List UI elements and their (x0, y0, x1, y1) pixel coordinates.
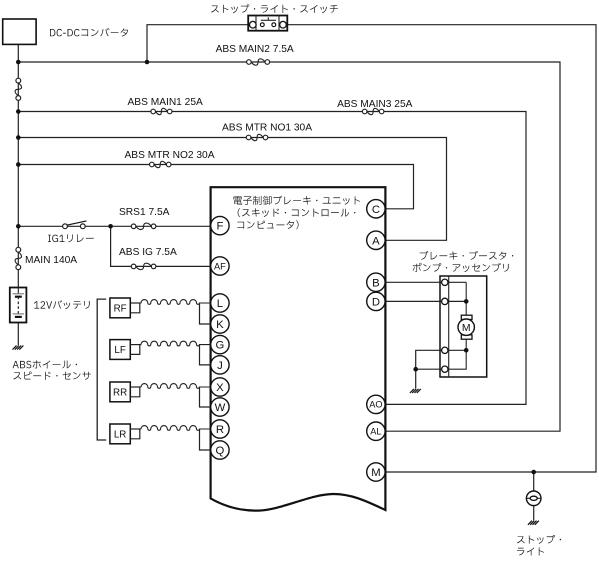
wire motor bottom to pins 3/4 (448, 339, 466, 369)
stop light label line1 (517, 535, 561, 544)
fuse ABS MTR NO1 30A (246, 135, 251, 140)
svg-text:M: M (462, 323, 471, 334)
ECU pin F (211, 216, 229, 234)
svg-text:G: G (216, 340, 225, 352)
ECU pin K (211, 315, 229, 333)
ECU pin X (211, 378, 229, 396)
svg-text:ABS MAIN2 7.5A: ABS MAIN2 7.5A (216, 44, 294, 55)
pump connector pins (442, 279, 448, 285)
ECU pin G (211, 335, 229, 353)
ground pump assembly (410, 389, 414, 393)
ECU pin W (211, 398, 229, 416)
wire branch to stop light (533, 472, 535, 491)
motor M1 (461, 315, 472, 319)
ECU pin Q (211, 441, 229, 459)
stop light label line2 (517, 547, 544, 555)
svg-text:AF: AF (214, 261, 226, 271)
svg-text:B: B (372, 277, 380, 289)
twisted pair wiring LR (130, 428, 141, 430)
svg-text:ABS MTR NO1 30A: ABS MTR NO1 30A (222, 123, 312, 134)
wire lamp to ground (533, 506, 535, 521)
svg-text:K: K (216, 319, 224, 331)
fuse SRS1 7.5A (131, 224, 136, 229)
brake booster pump assembly box (440, 276, 487, 377)
pump assembly label line1 (420, 251, 514, 260)
DC-DC converter label (50, 28, 128, 37)
sensor group bracket (97, 299, 106, 440)
ECU label line3 (237, 220, 298, 229)
wire ABS MTR NO1 row: rail to x446.5 down to A (18, 138, 446, 241)
wire branch from node after relay down to ABS IG fuse row to AF (111, 226, 212, 266)
ECU skid control computer box U1 (211, 187, 386, 510)
wire IG1 relay row to F (18, 225, 212, 227)
ECU pin AL (367, 422, 385, 440)
wire ABS MAIN2 row: rail to fuse to right rail down to AL (18, 62, 560, 431)
connector link on left rail (16, 78, 21, 83)
ground below battery (13, 346, 17, 350)
wire pump pin1 down to motor (465, 282, 467, 315)
svg-text:AO: AO (369, 400, 382, 410)
wire pump pins 3/4 to ground (416, 350, 442, 388)
wire D to pump pin 2 (378, 300, 466, 302)
svg-text:J: J (217, 360, 223, 372)
relay IG1 contact (63, 224, 68, 229)
wire battery to ground (17, 317, 19, 345)
ECU pin AO (367, 395, 385, 413)
DC-DC converter box (3, 19, 36, 44)
svg-text:W: W (215, 402, 226, 414)
svg-text:SRS1 7.5A: SRS1 7.5A (119, 207, 170, 218)
svg-text:R: R (216, 424, 224, 436)
wire B to pump pin 1 (378, 281, 466, 283)
svg-text:X: X (216, 382, 224, 394)
svg-text:RR: RR (113, 388, 127, 399)
wheel speed sensor LR (110, 424, 130, 444)
stop light lamp (527, 497, 540, 499)
fuse ABS IG 7.5A (131, 264, 136, 269)
twisted pair wiring LF (130, 344, 141, 346)
wire ABS MAIN1/MAIN3 row: rail to x526 down to AO (18, 112, 526, 405)
wire ABS MTR NO2 row: rail to x413.5 down to C (18, 165, 413, 209)
svg-text:F: F (216, 221, 223, 233)
ECU pin A (367, 231, 385, 249)
svg-text:MAIN 140A: MAIN 140A (25, 255, 77, 266)
twisted pair wiring RR (130, 386, 141, 388)
ECU pin J (211, 356, 229, 374)
ECU pin AF (211, 257, 229, 275)
fuse MAIN 140A (16, 247, 21, 252)
svg-text:L: L (217, 298, 223, 310)
wire DC-DC converter drop / left rail (17, 44, 19, 287)
ground stop light (528, 521, 532, 525)
stop light switch label (211, 4, 338, 13)
ECU pin L (211, 294, 229, 312)
ECU pin B (367, 273, 385, 291)
svg-text:M: M (371, 467, 380, 479)
ECU label line1 (233, 196, 360, 205)
ECU label line2 (238, 208, 356, 217)
svg-text:ABS IG 7.5A: ABS IG 7.5A (119, 247, 177, 258)
wheel speed sensor RR (110, 382, 130, 402)
ABS wheel speed sensor label line1 (13, 360, 78, 368)
ECU pin D (367, 292, 385, 310)
svg-text:LF: LF (114, 345, 125, 356)
ABS wheel speed sensor label line2 (14, 372, 91, 380)
svg-text:ABS MTR NO2 30A: ABS MTR NO2 30A (125, 150, 215, 161)
pump assembly label line2 (413, 263, 509, 272)
svg-text:Q: Q (216, 445, 225, 457)
svg-text:ABS MAIN1 25A: ABS MAIN1 25A (128, 97, 204, 108)
ECU pin R (211, 420, 229, 438)
svg-text:C: C (372, 204, 380, 216)
wheel speed sensor RF (110, 298, 130, 318)
fuse ABS MTR NO2 30A (150, 162, 155, 167)
wire stop-light-switch right segment to far-right rail down to node M (287, 25, 596, 472)
twisted pair wiring RF (130, 302, 141, 304)
ECU pin M (367, 463, 385, 481)
fuse ABS MAIN3 25A (362, 109, 367, 114)
fuse ABS MAIN2 7.5A (247, 60, 252, 65)
IG1 relay label (48, 234, 94, 242)
svg-text:LR: LR (114, 430, 127, 441)
wire stop-light-switch left segment + drop to MAIN2 rail (147, 25, 248, 62)
stop light switch SW1 (248, 16, 287, 31)
12V battery label (34, 300, 90, 309)
svg-text:ABS MAIN3 25A: ABS MAIN3 25A (337, 99, 413, 110)
svg-text:D: D (372, 296, 380, 308)
svg-text:RF: RF (114, 304, 127, 315)
ECU pin C (367, 200, 385, 218)
svg-text:A: A (372, 235, 380, 247)
wheel speed sensor LF (110, 340, 130, 360)
fuse ABS MAIN1 25A (151, 109, 156, 114)
svg-text:AL: AL (370, 427, 381, 437)
junction nodes (16, 60, 21, 65)
battery 12V (10, 288, 27, 323)
